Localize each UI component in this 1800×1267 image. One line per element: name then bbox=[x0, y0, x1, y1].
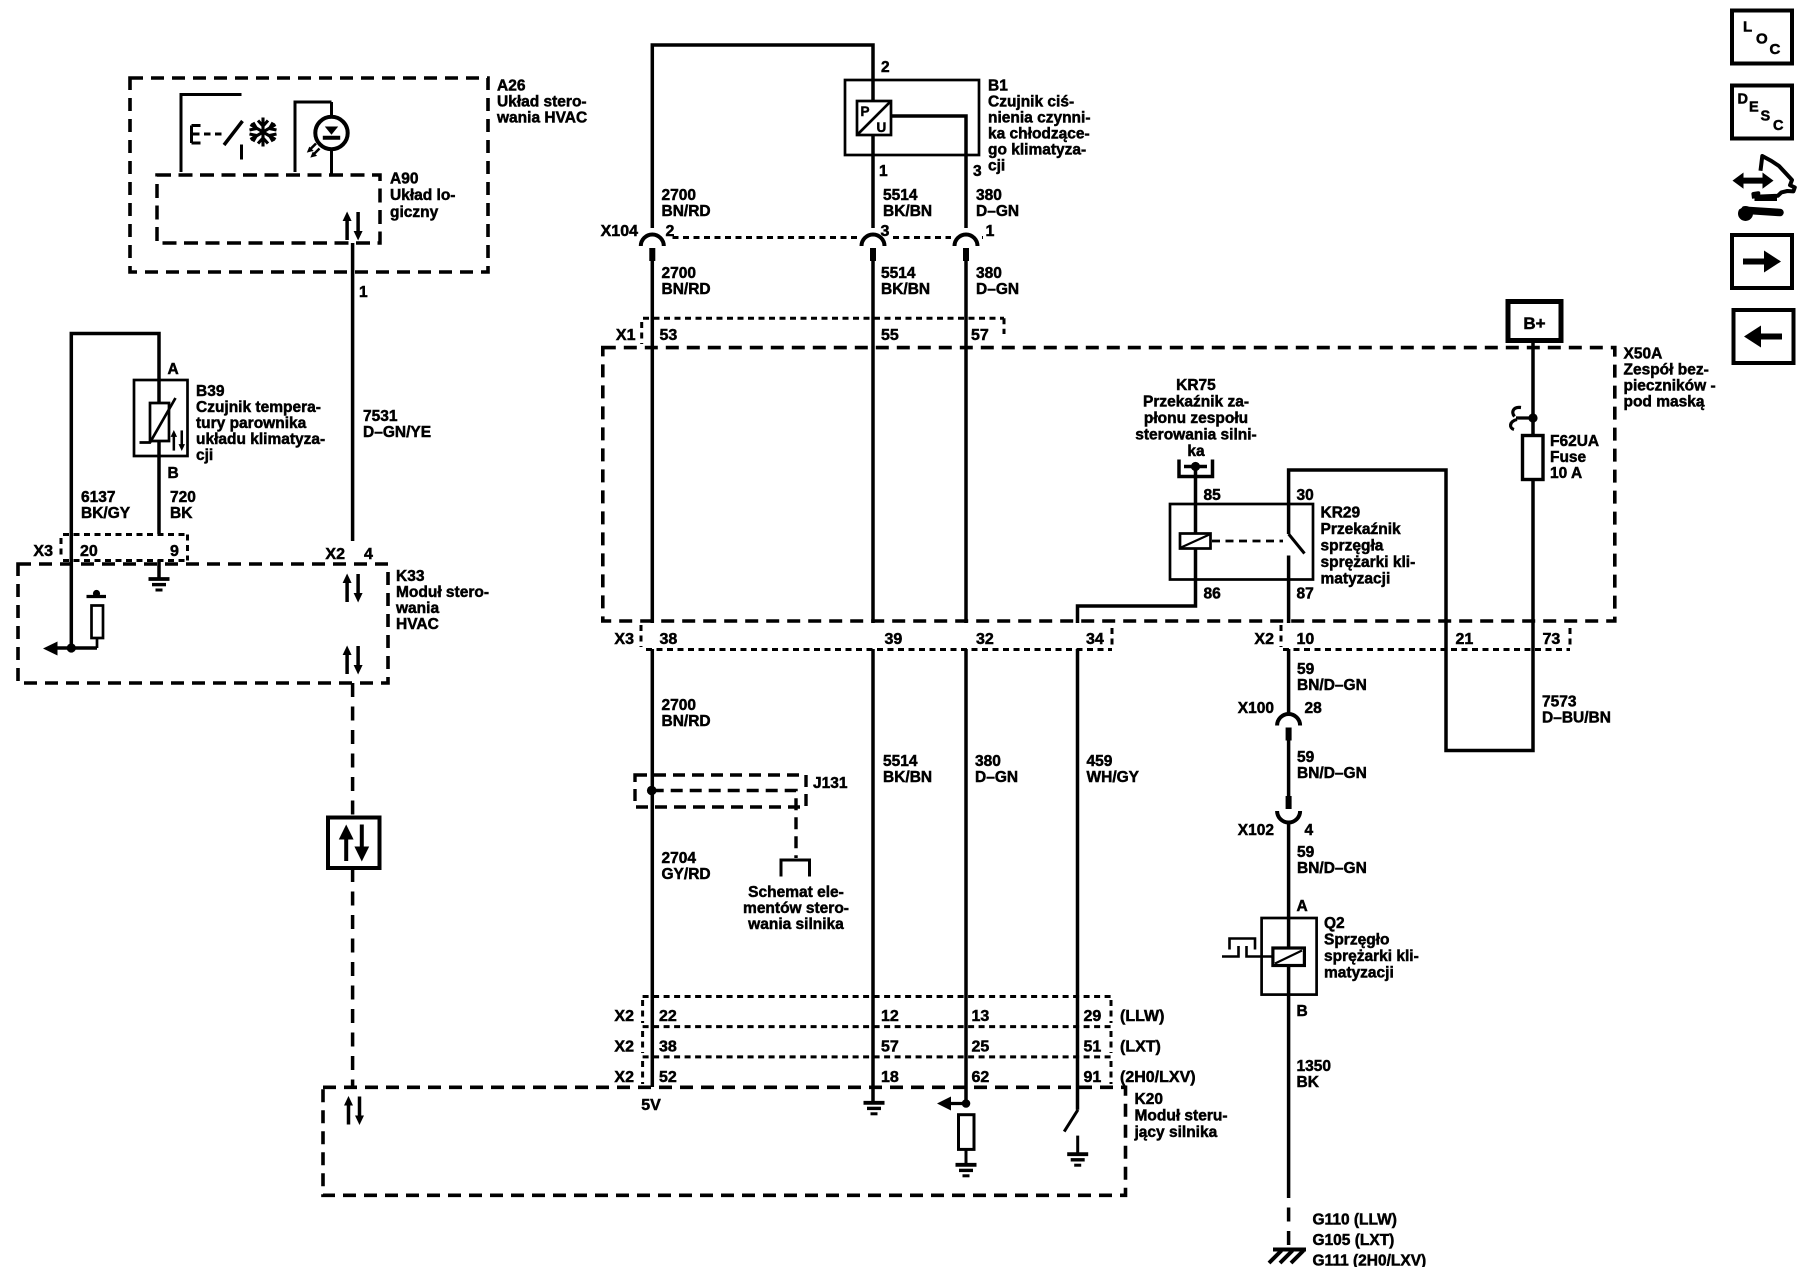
svg-text:G110 (LLW): G110 (LLW) bbox=[1313, 1212, 1397, 1229]
svg-text:S: S bbox=[1761, 108, 1771, 124]
svg-text:32: 32 bbox=[976, 631, 994, 648]
svg-text:pod maską: pod maską bbox=[1624, 394, 1705, 411]
svg-text:BK/GY: BK/GY bbox=[81, 505, 131, 522]
KR75 label bbox=[1135, 377, 1256, 460]
svg-text:459: 459 bbox=[1087, 753, 1113, 770]
svg-text:C: C bbox=[1770, 41, 1781, 58]
wire 380 to X1 bbox=[964, 256, 968, 345]
F62UA label bbox=[1550, 433, 1599, 482]
serial data box bbox=[328, 818, 380, 869]
svg-text:L: L bbox=[1743, 19, 1752, 36]
svg-text:2700: 2700 bbox=[662, 187, 696, 204]
svg-text:Q2: Q2 bbox=[1324, 915, 1345, 932]
wire B+ to fuse bbox=[1531, 341, 1535, 436]
svg-text:O: O bbox=[1756, 31, 1768, 48]
svg-text:BK/BN: BK/BN bbox=[883, 769, 932, 786]
wire 5514 BK/BN label (below X104) bbox=[881, 265, 930, 298]
svg-text:X2: X2 bbox=[325, 546, 345, 563]
K33 label bbox=[395, 568, 489, 633]
K20 data arrows bbox=[344, 1096, 364, 1125]
wire B39 pin B bbox=[157, 456, 161, 534]
arrowhead left bbox=[43, 642, 58, 656]
compressor clutch Q2 box bbox=[1262, 918, 1317, 995]
svg-text:55: 55 bbox=[881, 327, 899, 344]
svg-text:380: 380 bbox=[976, 265, 1002, 282]
LED wire bottom bbox=[330, 149, 333, 174]
svg-text:matyzacji: matyzacji bbox=[1321, 571, 1391, 588]
KR29 switch contact bbox=[1287, 556, 1291, 624]
svg-text:5514: 5514 bbox=[883, 187, 918, 204]
wire 380 D-GN label (below X3) bbox=[975, 753, 1018, 786]
svg-text:62: 62 bbox=[972, 1069, 990, 1086]
signal arrow out (380) bbox=[944, 1102, 966, 1105]
svg-text:sterowania silni-: sterowania silni- bbox=[1135, 427, 1256, 444]
P/U transducer square bbox=[857, 101, 891, 135]
svg-text:X104: X104 bbox=[601, 223, 638, 240]
svg-text:380: 380 bbox=[975, 753, 1001, 770]
svg-text:ka: ka bbox=[1187, 443, 1205, 460]
svg-text:wania silnika: wania silnika bbox=[747, 916, 844, 933]
engine controls schematic note bbox=[743, 884, 849, 933]
svg-text:3: 3 bbox=[973, 163, 982, 180]
svg-text:sprężarki kli-: sprężarki kli- bbox=[1324, 948, 1419, 965]
KR29 coil diagonal bbox=[1181, 535, 1210, 548]
resistor in K33 bbox=[87, 590, 107, 648]
KR29 armature dashed link bbox=[1212, 540, 1283, 543]
svg-text:giczny: giczny bbox=[390, 204, 439, 221]
svg-text:Sprzęgło: Sprzęgło bbox=[1324, 932, 1389, 949]
A90 data arrows bbox=[343, 212, 363, 241]
relay KR29 box bbox=[1170, 504, 1313, 580]
svg-text:2704: 2704 bbox=[662, 850, 697, 867]
svg-text:X3: X3 bbox=[33, 543, 53, 560]
svg-text:BK/BN: BK/BN bbox=[881, 281, 930, 298]
off-page connector symbol bbox=[781, 860, 810, 877]
Q2 coil diagonal bbox=[1275, 951, 1302, 964]
svg-text:57: 57 bbox=[971, 327, 989, 344]
wire 2700 BN/RD label (below X3) bbox=[662, 697, 711, 730]
svg-text:7573: 7573 bbox=[1542, 694, 1577, 711]
wire 2700 BN/RD label (below X104) bbox=[662, 265, 711, 298]
switch actuator E symbol bbox=[192, 126, 201, 144]
svg-text:59: 59 bbox=[1297, 844, 1315, 861]
svg-text:18: 18 bbox=[881, 1069, 899, 1086]
svg-text:2700: 2700 bbox=[662, 265, 696, 282]
svg-text:Przekaźnik: Przekaźnik bbox=[1321, 521, 1402, 538]
svg-text:57: 57 bbox=[881, 1039, 899, 1056]
car outline bbox=[1753, 156, 1794, 199]
svg-text:85: 85 bbox=[1204, 487, 1222, 504]
ground symbol (380 pull-up) bbox=[956, 1165, 977, 1176]
svg-text:73: 73 bbox=[1543, 631, 1561, 648]
wire 720 BK label bbox=[170, 489, 196, 522]
svg-text:D–GN/YE: D–GN/YE bbox=[363, 424, 431, 441]
svg-text:K33: K33 bbox=[396, 568, 425, 585]
chassis ground G110/G105/G111 bbox=[1269, 1250, 1306, 1264]
svg-text:Czujnik ciś-: Czujnik ciś- bbox=[988, 94, 1074, 111]
svg-text:52: 52 bbox=[659, 1069, 677, 1086]
svg-text:Przekaźnik za-: Przekaźnik za- bbox=[1143, 394, 1249, 411]
svg-text:B+: B+ bbox=[1523, 314, 1545, 333]
svg-text:Schemat ele-: Schemat ele- bbox=[748, 884, 844, 901]
A26 label bbox=[496, 78, 587, 127]
wire 2700 BN/RD label (above X104) bbox=[662, 187, 711, 220]
wire stubs inside B39 bbox=[157, 380, 161, 456]
svg-text:4: 4 bbox=[364, 546, 373, 563]
svg-text:B: B bbox=[1297, 1003, 1308, 1020]
engine control module K20 dashed box bbox=[323, 1087, 1126, 1195]
wire 5514 BK/BN label (above X104) bbox=[883, 187, 932, 220]
A90 label bbox=[390, 171, 455, 222]
switch contact stub bbox=[240, 145, 243, 160]
svg-text:matyzacji: matyzacji bbox=[1324, 965, 1394, 982]
X1 dotted line bbox=[643, 317, 1004, 320]
svg-text:X102: X102 bbox=[1238, 822, 1274, 839]
svg-text:BK: BK bbox=[170, 505, 193, 522]
X2 row LXT dotted line bbox=[643, 1055, 1111, 1058]
svg-text:cji: cji bbox=[988, 158, 1005, 175]
svg-text:X2: X2 bbox=[614, 1008, 634, 1025]
svg-text:P: P bbox=[861, 104, 870, 119]
LED circle bbox=[315, 117, 347, 149]
wire 7531 D-GN/YE label bbox=[363, 408, 431, 441]
double arrow bbox=[1741, 178, 1765, 184]
wire pin 86 to wire 459 bbox=[1078, 549, 1196, 624]
data box arrows bbox=[339, 825, 369, 862]
X2 bottom dotted line bbox=[1283, 648, 1570, 651]
wire pin20 into K33 bbox=[70, 534, 74, 648]
svg-text:układu klimatyza-: układu klimatyza- bbox=[196, 431, 325, 448]
svg-text:91: 91 bbox=[1084, 1069, 1102, 1086]
wire 380 through X50A bbox=[964, 345, 968, 623]
wire 380 D-GN label (below X104) bbox=[976, 265, 1019, 298]
wire 7573 loop pins 21-73 bbox=[1446, 623, 1533, 751]
svg-text:5514: 5514 bbox=[881, 265, 916, 282]
svg-text:WH/GY: WH/GY bbox=[1087, 769, 1140, 786]
svg-text:BN/D–GN: BN/D–GN bbox=[1297, 677, 1367, 694]
svg-text:34: 34 bbox=[1086, 631, 1104, 648]
svg-text:Czujnik tempera-: Czujnik tempera- bbox=[196, 399, 321, 416]
svg-text:D: D bbox=[1738, 91, 1748, 107]
svg-text:B1: B1 bbox=[988, 78, 1008, 95]
svg-text:B: B bbox=[168, 465, 179, 482]
dashed wire K33 to data box bbox=[351, 683, 355, 819]
svg-text:HVAC: HVAC bbox=[396, 616, 439, 633]
wire 59 BN/D-GN label 2 bbox=[1297, 749, 1367, 782]
K33 data arrows bottom bbox=[343, 646, 363, 675]
svg-text:2: 2 bbox=[881, 59, 890, 76]
wire 380 to K20 bbox=[964, 649, 968, 1104]
svg-text:Układ stero-: Układ stero- bbox=[497, 94, 587, 111]
svg-text:X2: X2 bbox=[1254, 631, 1274, 648]
svg-text:4: 4 bbox=[1305, 822, 1314, 839]
svg-text:20: 20 bbox=[80, 543, 98, 560]
svg-text:Moduł steru-: Moduł steru- bbox=[1135, 1108, 1228, 1125]
svg-text:2: 2 bbox=[666, 223, 675, 240]
svg-text:D–GN: D–GN bbox=[976, 203, 1019, 220]
svg-text:Zespół bez-: Zespół bez- bbox=[1624, 362, 1709, 379]
KR29 label bbox=[1321, 505, 1416, 588]
svg-text:BN/RD: BN/RD bbox=[662, 281, 711, 298]
svg-text:59: 59 bbox=[1297, 661, 1315, 678]
wire 1350 BK label bbox=[1297, 1058, 1331, 1091]
wire 7573 D-BU/BN label bbox=[1542, 694, 1611, 727]
svg-text:5V: 5V bbox=[641, 1097, 661, 1114]
svg-text:380: 380 bbox=[976, 187, 1002, 204]
dashed wire to ground bbox=[1287, 1184, 1291, 1245]
B39 label bbox=[196, 383, 325, 464]
KR29 coil bbox=[1180, 534, 1211, 549]
svg-text:B39: B39 bbox=[196, 383, 225, 400]
wire 2700 to X1 bbox=[651, 256, 655, 345]
svg-text:BN/RD: BN/RD bbox=[662, 203, 711, 220]
wire to arrow out (signal) bbox=[50, 646, 97, 650]
wire B1 pin 1 bbox=[871, 135, 875, 234]
wire 380 D-GN label (above X104) bbox=[976, 187, 1019, 220]
switch contact stub (459) bbox=[1076, 1136, 1079, 1153]
Q2 coil bbox=[1273, 948, 1305, 966]
switch actuator dashed link bbox=[204, 133, 224, 136]
wire 2704 GY/RD label bbox=[662, 850, 711, 883]
svg-text:E: E bbox=[1749, 99, 1759, 115]
svg-text:X1: X1 bbox=[616, 327, 636, 344]
splice pack J131 dashed box bbox=[635, 775, 806, 807]
svg-text:86: 86 bbox=[1204, 586, 1222, 603]
HVAC control module A26 dashed box bbox=[130, 78, 488, 272]
svg-text:płonu zespołu: płonu zespołu bbox=[1144, 410, 1248, 427]
svg-text:sprzęgła: sprzęgła bbox=[1321, 538, 1384, 555]
svg-text:BK: BK bbox=[1297, 1074, 1320, 1091]
svg-text:(2H0/LXV): (2H0/LXV) bbox=[1120, 1069, 1196, 1086]
ground symbol (B39 return) bbox=[149, 579, 170, 590]
LED diode triangle bbox=[325, 127, 338, 135]
vehicle service icon bbox=[1733, 156, 1795, 221]
logic module A90 dashed box bbox=[157, 175, 380, 243]
svg-text:30: 30 bbox=[1297, 487, 1314, 504]
wire B39 pin A loop bbox=[71, 334, 159, 535]
svg-text:A: A bbox=[168, 361, 179, 378]
ground symbol (459 switch) bbox=[1067, 1154, 1088, 1165]
svg-text:mentów stero-: mentów stero- bbox=[743, 900, 849, 917]
svg-text:A: A bbox=[1297, 898, 1308, 915]
X50A label bbox=[1624, 346, 1716, 411]
wire 5514 through X50A bbox=[871, 345, 875, 623]
svg-text:K20: K20 bbox=[1135, 1091, 1163, 1108]
wire 59 BN/D-GN label 3 bbox=[1297, 844, 1367, 877]
svg-text:D–GN: D–GN bbox=[976, 281, 1019, 298]
svg-text:jący silnika: jący silnika bbox=[1134, 1124, 1218, 1141]
X104 terminal pin 1 bbox=[955, 235, 978, 262]
junction dot bbox=[67, 643, 76, 652]
LED indicator housing bbox=[295, 102, 332, 172]
svg-text:go klimatyza-: go klimatyza- bbox=[988, 142, 1086, 159]
wire KR75 to KR29 pin 85 bbox=[1194, 467, 1198, 534]
svg-text:X50A: X50A bbox=[1624, 346, 1663, 363]
svg-text:BN/D–GN: BN/D–GN bbox=[1297, 765, 1367, 782]
connector X100 pin 28 bbox=[1277, 714, 1300, 741]
svg-text:G105 (LXT): G105 (LXT) bbox=[1313, 1232, 1395, 1249]
wire 2700 to J131 bbox=[651, 649, 655, 1087]
svg-text:1: 1 bbox=[359, 284, 368, 301]
svg-text:pieczników -: pieczników - bbox=[1624, 378, 1716, 395]
svg-text:nienia czynni-: nienia czynni- bbox=[988, 110, 1091, 127]
svg-text:1350: 1350 bbox=[1297, 1058, 1331, 1075]
svg-text:ka chłodzące-: ka chłodzące- bbox=[988, 126, 1090, 143]
svg-text:BN/D–GN: BN/D–GN bbox=[1297, 860, 1367, 877]
LOC icon box bbox=[1732, 11, 1792, 64]
svg-text:J131: J131 bbox=[813, 775, 848, 792]
X2 row 2H0/LXV dotted verticals bbox=[641, 1061, 644, 1084]
wire 59 BN/D-GN label 1 bbox=[1297, 661, 1367, 694]
wire X102 to Q2 bbox=[1287, 822, 1291, 918]
wire pin 30 feed bbox=[1289, 470, 1446, 623]
KR75 supply symbol bbox=[1179, 460, 1213, 477]
Q2 mechanical linkage symbol bbox=[1222, 939, 1273, 957]
J131 dashed branch bbox=[652, 791, 796, 859]
B1 label bbox=[988, 78, 1091, 175]
svg-text:29: 29 bbox=[1084, 1008, 1102, 1025]
X2 row LLW dotted lines bbox=[643, 995, 1111, 998]
svg-text:1: 1 bbox=[986, 223, 995, 240]
wire 459 WH/GY label bbox=[1087, 753, 1140, 786]
dashed wire data box to K20 bbox=[351, 868, 355, 1087]
wire pin10 to X100 bbox=[1287, 649, 1291, 715]
svg-text:2700: 2700 bbox=[662, 697, 696, 714]
svg-text:cji: cji bbox=[196, 447, 213, 464]
svg-text:(LLW): (LLW) bbox=[1120, 1008, 1164, 1025]
fuse tap symbol bbox=[1511, 407, 1538, 429]
wire 5514 to X1 bbox=[871, 256, 875, 345]
svg-text:87: 87 bbox=[1297, 586, 1314, 603]
svg-text:X100: X100 bbox=[1238, 700, 1274, 717]
wire pin9 into K33 bbox=[157, 560, 161, 579]
switch blade bbox=[224, 121, 243, 145]
wire 5514 BK/BN label (below X3) bbox=[883, 753, 932, 786]
connector X102 pin 4 bbox=[1277, 796, 1300, 823]
svg-text:wania HVAC: wania HVAC bbox=[496, 110, 587, 127]
resistor lead bbox=[965, 1149, 968, 1164]
svg-text:X3: X3 bbox=[614, 631, 634, 648]
back arrow icon box bbox=[1734, 310, 1794, 363]
svg-text:Układ lo-: Układ lo- bbox=[390, 187, 455, 204]
svg-text:F62UA: F62UA bbox=[1550, 433, 1599, 450]
KR29 switch blade bbox=[1289, 534, 1305, 554]
thermistor data arrows bbox=[171, 430, 185, 451]
svg-text:720: 720 bbox=[170, 489, 196, 506]
svg-text:9: 9 bbox=[170, 543, 179, 560]
wire A90 pin 1 bbox=[351, 243, 355, 541]
svg-text:tury parownika: tury parownika bbox=[196, 415, 307, 432]
B+ box bbox=[1508, 302, 1561, 341]
svg-text:1: 1 bbox=[879, 163, 888, 180]
sensor B39 box bbox=[134, 380, 188, 456]
forward arrow icon box bbox=[1732, 235, 1792, 288]
svg-text:U: U bbox=[877, 120, 887, 135]
wire 5514 to K20 bbox=[871, 649, 875, 1101]
svg-text:wania: wania bbox=[395, 600, 439, 617]
J131 junction dot bbox=[647, 786, 657, 796]
LED cathode bar bbox=[323, 136, 340, 140]
snowflake icon bbox=[250, 118, 277, 147]
pull-up resistor (380) bbox=[959, 1115, 975, 1150]
wire B1 pin 3 bbox=[891, 116, 966, 234]
wire 459 to K20 bbox=[1076, 649, 1080, 1110]
switch to ground (459) bbox=[1064, 1110, 1078, 1132]
sensor B1 box bbox=[845, 80, 979, 155]
thermistor symbol bbox=[150, 403, 169, 441]
svg-text:53: 53 bbox=[660, 327, 678, 344]
DESC icon box bbox=[1732, 86, 1792, 139]
svg-text:sprężarki kli-: sprężarki kli- bbox=[1321, 554, 1416, 571]
thermistor diagonal bbox=[140, 398, 176, 443]
svg-text:X2: X2 bbox=[614, 1069, 634, 1086]
svg-text:KR29: KR29 bbox=[1321, 505, 1361, 522]
Q2 wire through bbox=[1287, 918, 1291, 995]
svg-text:A26: A26 bbox=[497, 78, 526, 95]
svg-text:D–GN: D–GN bbox=[975, 769, 1018, 786]
wrench bbox=[1738, 206, 1753, 221]
svg-text:G111 (2H0/LXV): G111 (2H0/LXV) bbox=[1313, 1253, 1427, 1267]
X104 terminal pin 2 bbox=[641, 235, 664, 262]
junction dot (380) bbox=[962, 1099, 971, 1108]
ground names bbox=[1313, 1212, 1427, 1267]
wire 2700 through X50A bbox=[651, 345, 655, 623]
wire X100 to X102 bbox=[1287, 738, 1291, 798]
svg-text:BN/RD: BN/RD bbox=[662, 713, 711, 730]
svg-text:Moduł stero-: Moduł stero- bbox=[396, 584, 489, 601]
svg-text:7531: 7531 bbox=[363, 408, 398, 425]
X104 dotted line bbox=[641, 236, 984, 239]
wire 1350 BK bbox=[1287, 995, 1291, 1184]
svg-text:A90: A90 bbox=[390, 171, 418, 188]
svg-text:38: 38 bbox=[659, 1039, 677, 1056]
svg-text:3: 3 bbox=[881, 223, 890, 240]
svg-text:25: 25 bbox=[972, 1039, 990, 1056]
wire fuse to X2 pin 73 bbox=[1531, 480, 1535, 624]
svg-text:13: 13 bbox=[972, 1008, 990, 1025]
svg-text:X2: X2 bbox=[614, 1039, 634, 1056]
svg-text:BK/BN: BK/BN bbox=[883, 203, 932, 220]
ground symbol (5514 return) bbox=[864, 1103, 885, 1114]
svg-text:21: 21 bbox=[1456, 631, 1474, 648]
svg-text:22: 22 bbox=[659, 1008, 677, 1025]
svg-text:Fuse: Fuse bbox=[1550, 449, 1587, 466]
svg-text:39: 39 bbox=[885, 631, 903, 648]
wire B1 pin 2 loop to X104 bbox=[652, 45, 873, 234]
LED wire top bbox=[330, 102, 333, 117]
connector X2 pin 4 labels (K33) bbox=[325, 546, 373, 563]
svg-text:12: 12 bbox=[881, 1008, 899, 1025]
LED emission arrows bbox=[307, 144, 320, 158]
X3 bottom dotted line bbox=[646, 648, 1112, 651]
X104 terminal pin 3 bbox=[862, 235, 885, 262]
svg-text:51: 51 bbox=[1084, 1039, 1102, 1056]
svg-text:(LXT): (LXT) bbox=[1120, 1039, 1161, 1056]
svg-text:10 A: 10 A bbox=[1550, 465, 1582, 482]
wire 6137 BK/GY label bbox=[81, 489, 131, 522]
fuse F62UA body bbox=[1523, 436, 1544, 480]
Q2 label bbox=[1324, 915, 1419, 982]
svg-text:GY/RD: GY/RD bbox=[662, 866, 711, 883]
svg-text:6137: 6137 bbox=[81, 489, 115, 506]
connector X3 row (K33) bbox=[61, 535, 188, 561]
svg-text:D–BU/BN: D–BU/BN bbox=[1542, 710, 1611, 727]
svg-text:59: 59 bbox=[1297, 749, 1315, 766]
K33 data arrows top bbox=[343, 574, 363, 603]
svg-text:10: 10 bbox=[1297, 631, 1315, 648]
switch S housing bbox=[181, 95, 242, 173]
K20 label bbox=[1134, 1091, 1228, 1141]
